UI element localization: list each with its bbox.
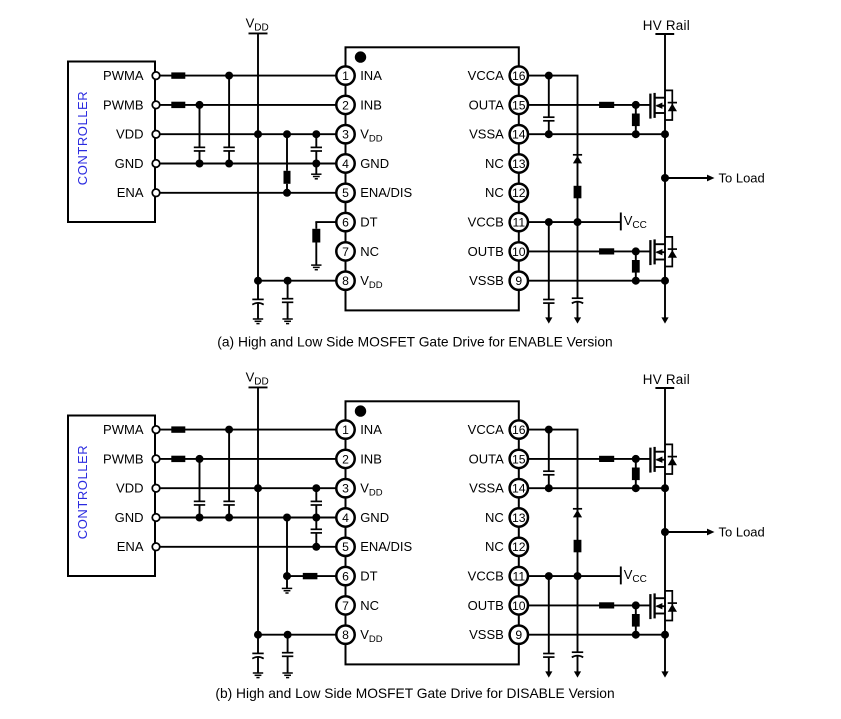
resistor bootstrap (a): [574, 163, 582, 226]
capacitor VCC ceramic (a): [543, 222, 554, 324]
svg-text:NC: NC: [485, 510, 504, 525]
pin 7 label NC (a): [360, 244, 379, 259]
pin 12 label NC (a): [485, 185, 504, 200]
resistor bootstrap (b): [574, 517, 582, 580]
junction VDD rail/VDD net (a): [254, 130, 262, 138]
svg-text:VSSB: VSSB: [469, 273, 504, 288]
pin 6 label DT (b): [360, 569, 377, 584]
VCC label (b): [624, 567, 647, 585]
To Load arrow (b): [665, 529, 715, 536]
svg-text:14: 14: [512, 128, 526, 142]
pin 12 circle (b): [510, 538, 528, 556]
pin 11 circle (a): [510, 213, 528, 231]
resistor gate A (a): [599, 102, 614, 108]
controller pin label PWMB (b): [103, 451, 143, 466]
VDD rail (a): [249, 33, 268, 280]
ground DT (a): [311, 265, 321, 270]
controller box (b): [68, 416, 155, 577]
transistor Q1 high-side (a): [650, 93, 665, 119]
resistor gate B (a): [599, 248, 614, 254]
wire VDD net (b): [156, 487, 336, 489]
svg-text:INA: INA: [360, 422, 382, 437]
controller pin label PWMB (a): [103, 97, 143, 112]
controller pin label PWMA (b): [103, 422, 144, 437]
capacitor VCC bulk (a): [572, 222, 583, 324]
pin 14 circle (a): [510, 125, 528, 143]
svg-text:DT: DT: [360, 215, 377, 230]
svg-text:VDD: VDD: [360, 481, 383, 499]
svg-text:12: 12: [512, 186, 526, 200]
pin 15 circle (b): [510, 450, 528, 468]
svg-text:(a) High and Low Side MOSFET G: (a) High and Low Side MOSFET Gate Drive …: [217, 335, 612, 350]
svg-text:VCC: VCC: [624, 567, 647, 585]
transistor Q1 high-side (b): [650, 447, 665, 473]
pin 16 label VCCA (b): [468, 422, 504, 437]
svg-text:VCCA: VCCA: [468, 68, 504, 83]
controller pin circle PWMA (b): [152, 426, 160, 434]
pin 5 circle (a): [336, 184, 354, 202]
svg-text:14: 14: [512, 482, 526, 496]
pin 3 label VDD (a): [360, 127, 383, 145]
svg-text:ENA/DIS: ENA/DIS: [360, 185, 412, 200]
ground VDD decoupling cap (a): [282, 319, 292, 324]
controller pin label ENA (a): [117, 185, 144, 200]
pin 4 label GND (a): [360, 156, 389, 171]
svg-text:OUTA: OUTA: [469, 97, 504, 112]
svg-text:NC: NC: [360, 598, 379, 613]
pin 14 label VSSA (a): [469, 127, 504, 142]
pin 5 label ENA/DIS (a): [360, 185, 412, 200]
wire ENA net (b): [156, 546, 336, 548]
HV Rail label (a): [643, 18, 690, 33]
capacitor PWMA-GND (b): [223, 426, 234, 522]
pin 13 label NC (b): [485, 510, 504, 525]
svg-text:VDD: VDD: [360, 627, 383, 645]
To Load label (a): [719, 170, 765, 185]
ground VDD decoupling cap (b): [282, 673, 292, 678]
controller pin label VDD (a): [116, 127, 143, 142]
svg-text:11: 11: [512, 570, 525, 584]
VDD supply label (a): [246, 16, 269, 34]
svg-text:VDD: VDD: [360, 127, 383, 145]
controller pin circle PWMA (a): [152, 72, 160, 80]
resistor series PWMA (a): [171, 72, 185, 78]
pin 4 label GND (b): [360, 510, 389, 525]
capacitor PWMB-GND (b): [194, 455, 205, 522]
controller pin circle GND (a): [152, 160, 160, 168]
svg-text:VDD: VDD: [116, 127, 143, 142]
wire OUTB gate B (a): [528, 247, 650, 255]
svg-text:HV Rail: HV Rail: [643, 372, 690, 387]
svg-text:OUTB: OUTB: [468, 598, 504, 613]
diode bootstrap (a): [573, 76, 582, 164]
To Load arrow (a): [665, 175, 715, 182]
To Load label (b): [719, 524, 765, 539]
capacitor VDD-GND (b): [311, 484, 322, 521]
body diode Q1 high-side (a): [665, 90, 677, 120]
VCC label (a): [624, 213, 647, 231]
wire VCCB (a): [528, 218, 621, 226]
resistor series PWMB (a): [171, 102, 185, 108]
svg-text:5: 5: [342, 186, 349, 200]
capacitor bootstrap VCCA-VSSA (a): [543, 76, 554, 139]
svg-text:INB: INB: [360, 451, 382, 466]
controller pin label GND (b): [115, 510, 144, 525]
pin 4 circle (b): [336, 508, 354, 526]
node switch output (a): [661, 174, 669, 182]
wire VDD pin8 (b): [258, 634, 336, 636]
pin 2 circle (a): [336, 96, 354, 114]
controller pin circle VDD (b): [152, 484, 160, 492]
VCC supply bar (b): [620, 567, 622, 585]
svg-text:13: 13: [512, 511, 526, 525]
wire GND net (a): [156, 163, 336, 165]
pin 5 label ENA/DIS (b): [360, 539, 412, 554]
body diode Q2 low-side (b): [665, 591, 677, 621]
pin 11 label VCCB (a): [468, 215, 504, 230]
svg-text:12: 12: [512, 540, 526, 554]
node switch output (b): [661, 528, 669, 536]
svg-text:7: 7: [342, 599, 349, 613]
controller box (a): [68, 62, 155, 223]
svg-text:15: 15: [512, 98, 526, 112]
wire VCCB (b): [528, 572, 621, 580]
pin 9 circle (a): [510, 272, 528, 290]
pin 8 label VDD (b): [360, 627, 383, 645]
capacitor decoupling VDD (b): [282, 631, 293, 673]
pin 8 label VDD (a): [360, 273, 383, 291]
controller pin circle ENA (b): [152, 543, 160, 551]
IC driver box (b): [346, 401, 519, 664]
transistor Q2 low-side (a): [650, 239, 665, 265]
pin 12 circle (a): [510, 184, 528, 202]
resistor gate B (b): [599, 602, 614, 608]
svg-text:VCC: VCC: [624, 213, 647, 231]
svg-text:4: 4: [342, 157, 349, 171]
wire PWMA-INA net (a): [156, 75, 336, 77]
svg-text:VSSA: VSSA: [469, 127, 504, 142]
resistor pull-up ENA/DIS (a): [283, 130, 291, 197]
VDD supply label (b): [246, 370, 269, 388]
svg-text:NC: NC: [485, 539, 504, 554]
wire PWMB-INB net (b): [156, 458, 336, 460]
ground DT/GND (b): [282, 576, 292, 593]
pin 3 label VDD (b): [360, 481, 383, 499]
svg-text:7: 7: [342, 245, 349, 259]
svg-text:4: 4: [342, 511, 349, 525]
capacitor decoupling VDD (a): [282, 277, 293, 319]
svg-text:3: 3: [342, 128, 349, 142]
pin 5 circle (b): [336, 538, 354, 556]
svg-text:2: 2: [342, 452, 349, 466]
pin 2 label INB (a): [360, 97, 382, 112]
caption (b): [215, 686, 614, 701]
pin 7 circle (b): [336, 596, 354, 614]
svg-text:VDD: VDD: [360, 273, 383, 291]
svg-text:VCCB: VCCB: [468, 569, 504, 584]
HV Rail label (b): [643, 372, 690, 387]
pin 8 circle (a): [336, 272, 354, 290]
resistor gate A (b): [599, 456, 614, 462]
transistor Q2 low-side (b): [650, 593, 665, 619]
svg-text:CONTROLLER: CONTROLLER: [75, 91, 90, 185]
svg-text:ENA: ENA: [117, 185, 144, 200]
svg-text:ENA: ENA: [117, 539, 144, 554]
pin 13 circle (b): [510, 508, 528, 526]
pin1 marker dot (a): [355, 51, 366, 62]
wire VSSA (a): [528, 130, 669, 138]
svg-text:6: 6: [342, 216, 349, 230]
svg-text:PWMB: PWMB: [103, 97, 143, 112]
controller pin circle PWMB (b): [152, 455, 160, 463]
resistor DT (a): [312, 229, 320, 265]
svg-text:PWMA: PWMA: [103, 422, 144, 437]
pin 1 label INA (b): [360, 422, 382, 437]
pin 13 circle (a): [510, 154, 528, 172]
svg-text:VSSB: VSSB: [469, 627, 504, 642]
capacitor GND-ENA/DIS (b): [311, 518, 322, 551]
HV rail (a): [655, 34, 674, 318]
wire ENA net (a): [156, 192, 336, 194]
svg-text:16: 16: [512, 423, 526, 437]
pin 1 circle (a): [336, 66, 354, 84]
body diode Q1 high-side (b): [665, 444, 677, 474]
svg-text:GND: GND: [115, 510, 144, 525]
svg-text:PWMB: PWMB: [103, 451, 143, 466]
ground VDD bulk cap (a): [253, 319, 263, 324]
resistor gate-source B (a): [632, 251, 640, 284]
svg-text:OUTA: OUTA: [469, 451, 504, 466]
pin 11 circle (b): [510, 567, 528, 585]
capacitor VCC ceramic (b): [543, 576, 554, 678]
svg-text:NC: NC: [360, 244, 379, 259]
svg-text:6: 6: [342, 570, 349, 584]
pin 12 label NC (b): [485, 539, 504, 554]
resistor series PWMB (b): [171, 456, 185, 462]
controller pin circle ENA (a): [152, 189, 160, 197]
pin 16 circle (b): [510, 420, 528, 438]
pin 9 label VSSB (b): [469, 627, 504, 642]
pin 7 circle (a): [336, 242, 354, 260]
svg-text:5: 5: [342, 540, 349, 554]
wire VDD net (a): [156, 133, 336, 135]
resistor gate-source A (a): [632, 105, 640, 138]
svg-text:9: 9: [515, 628, 522, 642]
svg-text:DT: DT: [360, 569, 377, 584]
pin 2 circle (b): [336, 450, 354, 468]
svg-text:15: 15: [512, 452, 526, 466]
wire OUTA gate A (b): [528, 455, 650, 463]
pin 10 label OUTB (b): [468, 598, 504, 613]
junction VDD rail/VDD net (b): [254, 484, 262, 492]
svg-text:OUTB: OUTB: [468, 244, 504, 259]
svg-text:(b) High and Low Side MOSFET G: (b) High and Low Side MOSFET Gate Drive …: [215, 686, 614, 701]
wire DT (b): [287, 575, 336, 577]
svg-text:1: 1: [342, 69, 349, 83]
resistor gate-source B (b): [632, 605, 640, 638]
ground GND net (a): [311, 164, 321, 179]
capacitor bulk VDD (a): [252, 281, 263, 319]
HV rail (b): [655, 388, 674, 672]
svg-text:8: 8: [342, 628, 349, 642]
svg-text:1: 1: [342, 423, 349, 437]
pin 16 circle (a): [510, 66, 528, 84]
svg-text:GND: GND: [360, 510, 389, 525]
pin 14 circle (b): [510, 479, 528, 497]
pin 1 circle (b): [336, 420, 354, 438]
svg-text:13: 13: [512, 157, 526, 171]
controller pin label ENA (b): [117, 539, 144, 554]
wire VSSA (b): [528, 484, 669, 492]
wire GND-DT node (b): [283, 514, 291, 581]
svg-text:HV Rail: HV Rail: [643, 18, 690, 33]
pin 2 label INB (b): [360, 451, 382, 466]
pin 10 label OUTB (a): [468, 244, 504, 259]
svg-text:VDD: VDD: [116, 481, 143, 496]
svg-text:VDD: VDD: [246, 16, 269, 34]
svg-text:INA: INA: [360, 68, 382, 83]
junction VDD rail/pin8 net (a): [254, 277, 262, 285]
capacitor bootstrap VCCA-VSSA (b): [543, 430, 554, 493]
svg-text:VCCB: VCCB: [468, 215, 504, 230]
ground VDD bulk cap (b): [253, 673, 263, 678]
resistor gate-source A (b): [632, 459, 640, 492]
capacitor VDD-GND (a): [311, 130, 322, 167]
svg-text:GND: GND: [115, 156, 144, 171]
capacitor PWMB-GND (a): [194, 101, 205, 168]
IC driver box (a): [346, 47, 519, 310]
wire VSSB (a): [528, 277, 669, 285]
wire PWMB-INB net (a): [156, 104, 336, 106]
svg-text:GND: GND: [360, 156, 389, 171]
pin 13 label NC (a): [485, 156, 504, 171]
ground HV rail arrow (b): [661, 671, 668, 677]
body diode Q2 low-side (a): [665, 237, 677, 267]
ground HV rail arrow (a): [661, 317, 668, 323]
wire OUTB gate B (b): [528, 601, 650, 609]
junction VDD rail/pin8 net (b): [254, 631, 262, 639]
svg-text:To Load: To Load: [719, 524, 765, 539]
svg-text:3: 3: [342, 482, 349, 496]
svg-text:NC: NC: [485, 156, 504, 171]
pin 10 circle (b): [510, 596, 528, 614]
svg-text:2: 2: [342, 98, 349, 112]
diode bootstrap (b): [573, 430, 582, 518]
pin 9 circle (b): [510, 626, 528, 644]
caption (a): [217, 335, 612, 350]
svg-text:8: 8: [342, 274, 349, 288]
svg-text:ENA/DIS: ENA/DIS: [360, 539, 412, 554]
pin 6 label DT (a): [360, 215, 377, 230]
label CONTROLLER (a): [75, 91, 90, 185]
controller pin label VDD (b): [116, 481, 143, 496]
pin 15 label OUTA (b): [469, 451, 504, 466]
pin 7 label NC (b): [360, 598, 379, 613]
svg-text:VSSA: VSSA: [469, 481, 504, 496]
svg-text:NC: NC: [485, 185, 504, 200]
wire GND net (b): [156, 517, 336, 519]
controller pin circle PWMB (a): [152, 101, 160, 109]
capacitor PWMA-GND (a): [223, 72, 234, 168]
pin 14 label VSSA (b): [469, 481, 504, 496]
wire VSSB (b): [528, 631, 669, 639]
svg-text:VDD: VDD: [246, 370, 269, 388]
svg-text:11: 11: [512, 216, 525, 230]
svg-text:10: 10: [512, 599, 526, 613]
pin 6 circle (b): [336, 567, 354, 585]
capacitor bulk VDD (b): [252, 635, 263, 673]
controller pin circle VDD (a): [152, 130, 160, 138]
wire OUTA gate A (a): [528, 101, 650, 109]
svg-text:9: 9: [515, 274, 522, 288]
controller pin label PWMA (a): [103, 68, 144, 83]
wire PWMA-INA net (b): [156, 429, 336, 431]
pin 1 label INA (a): [360, 68, 382, 83]
pin 16 label VCCA (a): [468, 68, 504, 83]
pin 4 circle (a): [336, 154, 354, 172]
wire VCCA (b): [528, 426, 578, 434]
resistor series PWMA (b): [171, 426, 185, 432]
svg-text:16: 16: [512, 69, 526, 83]
wire VCCA (a): [528, 72, 578, 80]
pin 10 circle (a): [510, 242, 528, 260]
pin 8 circle (b): [336, 626, 354, 644]
svg-text:PWMA: PWMA: [103, 68, 144, 83]
pin1 marker dot (b): [355, 405, 366, 416]
wire VDD pin8 (a): [258, 280, 336, 282]
svg-text:CONTROLLER: CONTROLLER: [75, 445, 90, 539]
controller pin label GND (a): [115, 156, 144, 171]
svg-text:INB: INB: [360, 97, 382, 112]
resistor DT (b): [303, 573, 318, 579]
VCC supply bar (a): [620, 213, 622, 231]
wire DT (a): [315, 222, 336, 229]
pin 6 circle (a): [336, 213, 354, 231]
controller pin circle GND (b): [152, 514, 160, 522]
capacitor VCC bulk (b): [572, 576, 583, 678]
label CONTROLLER (b): [75, 445, 90, 539]
pin 15 label OUTA (a): [469, 97, 504, 112]
pin 15 circle (a): [510, 96, 528, 114]
svg-text:10: 10: [512, 245, 526, 259]
VDD rail (b): [249, 387, 268, 634]
pin 9 label VSSB (a): [469, 273, 504, 288]
svg-text:VCCA: VCCA: [468, 422, 504, 437]
pin 3 circle (b): [336, 479, 354, 497]
pin 3 circle (a): [336, 125, 354, 143]
pin 11 label VCCB (b): [468, 569, 504, 584]
svg-text:To Load: To Load: [719, 170, 765, 185]
